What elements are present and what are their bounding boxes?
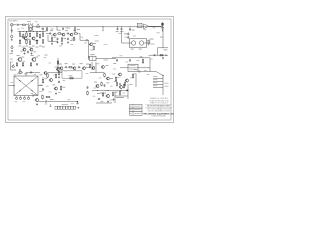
wire y97 segment	[116, 97, 124, 99]
resistor R40	[101, 82, 102, 87]
label value at 119.5,55.4	[120, 54, 123, 57]
ground G2	[31, 52, 33, 54]
label value at 146.5,74.0	[147, 73, 150, 76]
label value at 133.5,73.4	[134, 72, 137, 75]
label left note	[10, 52, 13, 55]
label value at 45.5,29.6	[46, 29, 49, 32]
title block rule 2	[145, 106, 172, 108]
wire stage1 link y39	[28, 38, 31, 40]
label R44 ref	[115, 91, 118, 94]
terminal output dot	[162, 75, 163, 76]
label R41 ref	[114, 80, 117, 83]
label value at 96.5,63.4	[97, 62, 100, 65]
label value at 130.0,77.4	[130, 76, 133, 79]
transistor Q27	[106, 94, 110, 98]
wire input	[13, 24, 16, 26]
label C9 ref	[72, 38, 76, 41]
label C11 value	[120, 30, 123, 33]
wire to output bus	[150, 71, 156, 73]
wire chain2 left drop	[47, 35, 49, 41]
transistor Q14	[17, 57, 22, 61]
resistor R4	[26, 32, 27, 37]
label R27 value	[22, 56, 25, 59]
capacitor C23 bottom	[77, 102, 79, 104]
label R25 value	[69, 74, 73, 77]
wire y90 long	[92, 90, 128, 92]
wire C11 down to can	[121, 30, 123, 43]
wire output stub 2	[153, 81, 163, 83]
wire x58 vertical	[57, 58, 59, 72]
label note x44	[45, 54, 48, 57]
resistor R13	[29, 40, 30, 45]
label R3 value	[22, 46, 25, 49]
transformer T1 primary arrow	[29, 24, 33, 28]
label value at 93.5,87.6	[94, 87, 97, 90]
transistor Q18	[54, 87, 58, 90]
capacitor C11	[121, 27, 123, 30]
label C5 ref	[50, 29, 53, 32]
feedback loop wire top	[62, 70, 82, 72]
ground G6	[61, 43, 63, 45]
wire bus right drop	[162, 27, 164, 35]
label value at 150.0,58.6	[150, 58, 153, 61]
resistor R42	[124, 82, 125, 87]
label C12 value	[132, 29, 135, 32]
resistor R12	[26, 39, 27, 44]
label value at 43.5,57.2	[44, 56, 47, 59]
transistor Q2	[31, 37, 35, 40]
capacitor C29	[30, 71, 33, 73]
resistor R43	[102, 92, 103, 97]
resistor R39	[104, 73, 105, 78]
label wire note	[104, 59, 109, 62]
transistor Q12	[72, 67, 76, 70]
wire bridge output	[38, 85, 43, 87]
wire into L1	[160, 25, 161, 27]
wire pad to transformer	[26, 24, 28, 26]
transistor Q25	[95, 84, 99, 87]
wire output bus down	[162, 93, 164, 96]
capacitor C18	[58, 81, 60, 84]
label value at 44.5,103.6	[45, 103, 48, 106]
label R12 value	[25, 45, 28, 48]
label Q11 ref	[59, 63, 62, 66]
diode D1	[19, 80, 21, 82]
resistor R32	[42, 78, 43, 83]
label Q14 ref	[17, 54, 20, 57]
label value at 10.5,61.6	[11, 61, 14, 64]
label bridge value	[24, 72, 28, 75]
label value at 62.5,80.2	[63, 79, 66, 82]
revision box 1	[130, 105, 143, 109]
transistor Q7	[69, 33, 73, 36]
svg-text:MICROPHONE AMPLIFIER: MICROPHONE AMPLIFIER	[147, 105, 171, 108]
label R24 ref	[72, 63, 75, 66]
wire C1 to R pad	[19, 24, 22, 26]
capacitor C3	[27, 51, 29, 54]
wire bridge top feed	[25, 72, 27, 76]
label value at 144.0,70.0	[144, 69, 147, 72]
resistor R45	[119, 91, 120, 96]
wire x115 drop	[114, 92, 116, 103]
ground G8	[162, 57, 164, 59]
resistor R33	[47, 73, 48, 78]
resistor R14	[36, 39, 37, 44]
label R5 C4 values	[66, 27, 71, 30]
node bridge left dot	[13, 85, 14, 86]
label Q24 ref	[110, 77, 113, 80]
wire right loop bottom	[149, 54, 169, 56]
label Q13 ref	[86, 63, 89, 66]
resistor R23	[159, 55, 164, 56]
wire input to bridge	[9, 85, 15, 87]
wire output stub 3	[153, 84, 163, 86]
junction dots y90 wire	[97, 90, 129, 91]
label value at 113.0,68.6	[113, 68, 116, 71]
label T1	[27, 20, 31, 23]
revision box 2	[130, 108, 143, 112]
transformer T2 arrow	[36, 24, 40, 27]
label value at 17.0,28.6	[17, 28, 20, 31]
wire stage1 link y36	[21, 36, 25, 38]
label value at 156.5,32.4	[157, 31, 160, 34]
label Q21 ref	[34, 93, 37, 96]
label C8 ref	[70, 39, 73, 42]
label Q16 ref	[60, 70, 63, 73]
buffer amplifier A2 triangle	[144, 24, 149, 29]
capacitor C26	[129, 59, 131, 62]
dual transistor Q9 Q10 can	[129, 39, 146, 47]
wire y93 segment	[100, 92, 106, 94]
capacitor C4 on bus	[62, 27, 64, 28]
wire x80 drop	[79, 34, 81, 41]
wire to x128	[120, 95, 128, 97]
junction dots stage1 bus	[20, 31, 44, 32]
transistor Q23	[101, 65, 105, 68]
resistor R35	[60, 85, 61, 90]
wire to x88 chain	[80, 39, 86, 41]
wire top feed horiz	[26, 71, 40, 73]
transistor Q21	[35, 98, 39, 101]
capacitor C10	[117, 27, 119, 30]
label value at 118.5,33.2	[119, 32, 122, 35]
label R16 ref	[58, 29, 61, 32]
terminal strip TS1	[55, 106, 57, 109]
label R52 value	[51, 28, 54, 31]
label value at 80.5,36.8	[81, 36, 84, 39]
label output 3	[153, 81, 158, 84]
wire drop x52	[51, 35, 53, 38]
svg-text:RECORDING EQUIPMENT LTD: RECORDING EQUIPMENT LTD	[143, 114, 174, 116]
resistor R30	[57, 60, 58, 65]
capacitor C31	[42, 27, 44, 30]
capacitor C17	[78, 66, 81, 68]
label value at 39.5,84.6	[40, 84, 43, 87]
capacitor C2 (jack filter)	[11, 29, 13, 31]
label value at 13.5,74.4	[14, 73, 17, 76]
potentiometer VR3	[23, 96, 25, 100]
ground G9	[58, 76, 60, 78]
wire x128 vertical	[127, 84, 129, 99]
resistor R44	[112, 92, 113, 97]
label value at 70.5,44.2	[71, 43, 74, 46]
note mid 1	[95, 34, 99, 37]
capacitor C9	[86, 39, 89, 41]
label Q23 ref	[106, 64, 109, 67]
transistor Q22	[91, 66, 95, 69]
ground G5	[57, 41, 59, 43]
wire jack sleeve down	[11, 27, 13, 33]
capacitor C12	[129, 28, 131, 31]
resistor R28	[22, 62, 23, 67]
transistor Q8	[89, 43, 93, 46]
resistor R1	[22, 24, 27, 25]
label value at 98.5,77.6	[99, 77, 102, 80]
capacitor C14	[127, 36, 129, 39]
ground G3	[11, 50, 13, 52]
label value at 39.5,91.0	[40, 90, 43, 93]
diode D3	[19, 90, 21, 92]
wire C30 to corner	[141, 71, 150, 73]
ground G0	[11, 39, 13, 41]
label value at 30.5,93.0	[31, 92, 34, 95]
label value at 46.0,85.8	[46, 85, 49, 88]
capacitor C22	[45, 101, 48, 103]
wire long bottom	[48, 101, 78, 103]
label terminal strip	[62, 103, 69, 106]
label value at 48.5,62.6	[49, 62, 52, 65]
transistor Q13	[82, 67, 86, 70]
wire x88 vertical	[88, 40, 90, 60]
diode D5	[165, 55, 167, 56]
label VR3	[22, 100, 25, 103]
label value at 33.5,74.0	[34, 73, 37, 76]
transistor Q15	[31, 57, 35, 61]
svg-text:MIC INPUT: MIC INPUT	[10, 20, 18, 22]
label right rail	[160, 36, 163, 39]
wire Q21 to C22	[39, 101, 45, 103]
wire left L vertical	[10, 62, 12, 71]
wire stage1 link y41	[35, 40, 39, 42]
resistor R6 on bus	[74, 27, 76, 28]
wire into Q9	[122, 42, 132, 44]
label value at 53.5,74.6	[54, 74, 57, 77]
capacitor C21	[42, 88, 44, 91]
wire Q27 out	[115, 95, 120, 97]
potentiometer VR5	[12, 65, 14, 67]
label R37 value	[50, 98, 53, 101]
label value at 58.0,92.2	[58, 91, 61, 94]
capacitor C13	[127, 32, 129, 35]
wire bus drop x103	[102, 27, 104, 30]
label Q4 ref	[34, 50, 37, 53]
transistor Q20	[125, 79, 129, 82]
potentiometer VR4	[27, 96, 29, 100]
svg-text:SHEET 1 OF 1 ISSUE 2: SHEET 1 OF 1 ISSUE 2	[150, 102, 168, 104]
terminal strip arrow	[77, 107, 80, 109]
resistor R19	[61, 37, 62, 42]
transformer T1 windings	[29, 28, 32, 31]
ground G7	[67, 41, 69, 43]
note mid 2	[95, 40, 100, 43]
label Q25 ref	[94, 81, 97, 84]
label R46 ref	[140, 55, 143, 58]
module box K1	[90, 56, 96, 61]
label value at 48.5,91.6	[49, 91, 52, 94]
resistor R8	[36, 32, 37, 37]
label C10 value	[116, 30, 119, 33]
resistor R37	[46, 96, 51, 97]
label C16 ref	[65, 62, 68, 65]
capacitor C15	[153, 54, 156, 56]
wire stage1 to chain2	[46, 33, 49, 35]
label value at 90.0,49.6	[90, 49, 93, 52]
resistor R52 on bus	[46, 27, 48, 28]
label value at 22.5,61.0	[23, 60, 26, 63]
ground G15	[107, 101, 109, 103]
title block rule 1	[145, 103, 172, 105]
label value at 110.0,85.8	[110, 85, 113, 88]
label R13 value	[29, 46, 32, 49]
wire A2 output to L1	[149, 25, 160, 27]
label R29 value	[36, 56, 39, 59]
resistor R21	[93, 46, 94, 51]
loudspeaker symbol LS1	[11, 35, 13, 37]
potentiometer VR2	[19, 96, 21, 100]
wire chain2 tail	[79, 33, 80, 35]
capacitor C8	[67, 37, 69, 40]
wire right drop 2	[162, 35, 164, 42]
label bridge W1	[17, 72, 21, 75]
wire into A4	[120, 67, 128, 69]
note right 2	[151, 43, 155, 46]
label value at 37.5,55.4	[38, 54, 41, 57]
label C13 ref	[124, 32, 127, 35]
resistor R3	[23, 34, 24, 39]
label C24 ref	[106, 81, 109, 84]
capacitor C1	[16, 24, 19, 26]
connector J1 mic input	[11, 24, 14, 27]
feedback loop wire right	[81, 71, 83, 78]
resistor R51	[18, 72, 23, 73]
junction dots on top bus	[38, 26, 131, 27]
transistor Q24	[106, 77, 110, 80]
resistor R34	[55, 73, 56, 78]
feedback loop wire bottom	[62, 77, 82, 79]
label value at 85.5,73.0	[86, 72, 89, 75]
resistor R10	[42, 32, 43, 37]
label R49 ref	[130, 83, 133, 86]
resistor R46	[142, 59, 143, 64]
label Q27 ref	[97, 92, 100, 95]
label K1 ref	[90, 53, 94, 56]
transistor Q17	[49, 78, 53, 81]
label value at 10.5,66.0	[11, 65, 14, 68]
wire output stub 1	[153, 78, 163, 80]
transistor Q28	[43, 71, 46, 74]
label R19 ref	[64, 37, 67, 40]
capacitor C27	[98, 98, 101, 100]
resistor R36	[42, 94, 43, 99]
wire rail lr	[112, 57, 150, 59]
label Q18 ref	[52, 83, 55, 86]
label value at 53.5,37.0	[54, 36, 57, 39]
label output right 2	[165, 85, 169, 88]
ground G14	[36, 103, 38, 105]
transistor Q26	[119, 85, 123, 88]
capacitor C25	[116, 59, 118, 62]
capacitor C5	[49, 33, 52, 35]
label right note	[150, 38, 154, 41]
resistor R16	[57, 33, 62, 34]
label value at 104.5,90.0	[105, 89, 108, 92]
note mid 3	[104, 43, 108, 46]
transistor Q5	[53, 33, 56, 36]
wire stage1 bus	[18, 31, 47, 33]
ground G1	[24, 52, 26, 54]
wire x96 vertical	[95, 62, 97, 73]
label output 4	[153, 84, 158, 87]
label C6 ref	[65, 29, 68, 32]
label C27 ref	[101, 100, 104, 103]
ground G10	[19, 69, 21, 71]
label value at 124.5,36.8	[125, 36, 128, 39]
label output right 1	[165, 82, 169, 85]
wire T1 to stage1	[27, 30, 29, 33]
output bus vertical	[162, 76, 164, 93]
label output 2	[153, 78, 158, 81]
resistor R29	[30, 62, 31, 67]
wire Q21 base up	[32, 94, 34, 97]
wire into chain3	[57, 66, 60, 68]
label value at 122.5,92.6	[123, 92, 126, 95]
sheet inner border	[8, 19, 171, 120]
label left small	[10, 58, 13, 61]
label R22 ref	[147, 39, 150, 42]
wire rail corner	[149, 58, 151, 64]
potentiometer VR0	[11, 46, 13, 48]
bus drop arrowhead x103	[102, 30, 103, 31]
label value at 84.0,42.6	[84, 42, 87, 45]
wire loop horiz	[48, 40, 58, 42]
resistor R41	[116, 82, 117, 87]
ground G13	[55, 92, 57, 94]
label value at 92.5,95.8	[93, 95, 96, 98]
wire diag to bus	[156, 72, 163, 76]
label value at 64.5,70.6	[65, 70, 68, 73]
resistor R22 right of can	[148, 41, 149, 44]
revision box 3	[130, 112, 143, 116]
label R21 ref	[93, 42, 96, 45]
wire from K1 right	[96, 57, 116, 59]
resistor R49	[123, 83, 124, 88]
label R11 value	[19, 45, 22, 48]
label Q9 ref	[131, 48, 134, 51]
resistor R11	[19, 39, 20, 44]
label R35 ref	[62, 86, 65, 89]
label value at 109.5,99.6	[110, 99, 113, 102]
resistor R47	[115, 76, 116, 81]
label value at 117.0,77.2	[117, 76, 120, 79]
label Q15 ref	[31, 54, 34, 57]
label R9 value	[39, 45, 42, 48]
wire y103 bottom	[96, 102, 112, 104]
label value at 71.0,103.4	[71, 102, 74, 105]
potentiometer VR1	[15, 96, 17, 100]
label C30 ref	[134, 68, 137, 71]
label Q10 ref	[139, 48, 142, 51]
wire to Q8	[89, 43, 90, 45]
